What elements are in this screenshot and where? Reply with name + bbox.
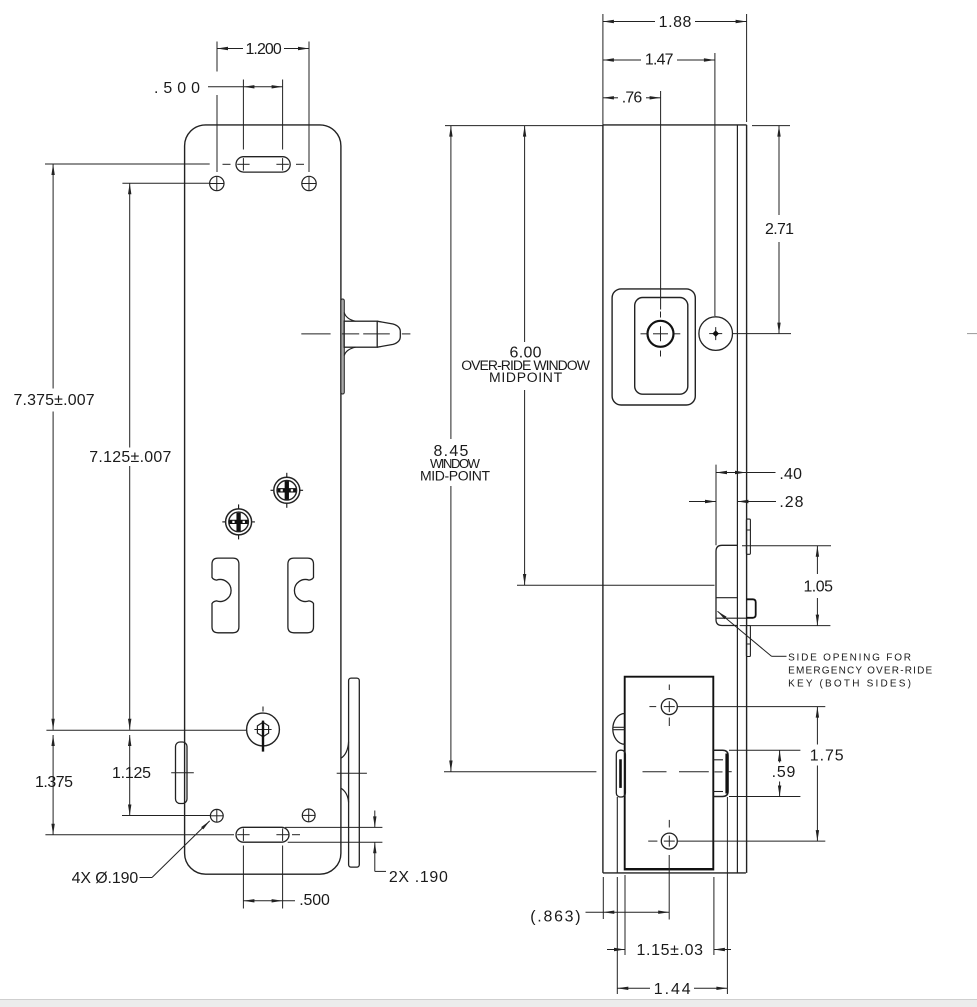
svg-text:2X .190: 2X .190 [389,869,448,886]
svg-text:1.88: 1.88 [659,14,692,31]
svg-text:.500: .500 [299,892,330,909]
svg-text:.59: .59 [772,764,796,781]
svg-text:1.47: 1.47 [645,52,674,69]
svg-text:.76: .76 [622,89,643,106]
svg-text:7.375±.007: 7.375±.007 [14,392,95,409]
svg-text:1.15±.03: 1.15±.03 [637,942,704,959]
svg-text:1.75: 1.75 [810,748,844,765]
svg-text:.40: .40 [779,466,802,483]
svg-text:MIDPOINT: MIDPOINT [489,369,563,385]
svg-text:1.375: 1.375 [35,774,73,791]
svg-text:1.44: 1.44 [654,981,691,998]
svg-text:2.71: 2.71 [765,221,794,238]
svg-text:EMERGENCY OVER-RIDE: EMERGENCY OVER-RIDE [788,665,932,676]
svg-text:(.863): (.863) [530,909,580,926]
svg-text:MID-POINT: MID-POINT [420,468,490,484]
svg-text:4X Ø.190: 4X Ø.190 [72,870,139,887]
svg-text:1.200: 1.200 [245,41,281,58]
svg-text:1.05: 1.05 [803,578,833,595]
svg-text:1.125: 1.125 [112,765,151,782]
svg-text:.28: .28 [779,494,803,511]
svg-text:7.125±.007: 7.125±.007 [89,449,171,466]
svg-text:KEY (BOTH SIDES): KEY (BOTH SIDES) [788,679,911,690]
